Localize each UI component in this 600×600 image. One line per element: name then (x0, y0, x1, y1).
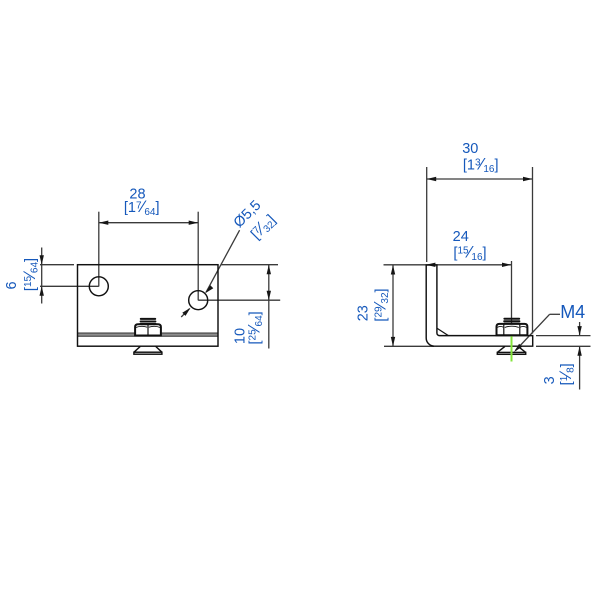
svg-text:[17⁄64]: [17⁄64] (124, 197, 160, 218)
svg-text:24: 24 (453, 229, 469, 245)
svg-text:6: 6 (4, 281, 20, 289)
svg-text:[15⁄64]: [15⁄64] (20, 258, 41, 291)
svg-text:[1⁄8]: [1⁄8] (556, 363, 577, 385)
svg-text:[25⁄64]: [25⁄64] (245, 311, 266, 344)
svg-text:23: 23 (355, 305, 371, 321)
svg-text:[15⁄16]: [15⁄16] (453, 242, 486, 263)
svg-text:[29⁄32]: [29⁄32] (370, 288, 391, 321)
svg-text:10: 10 (232, 328, 248, 344)
svg-text:3: 3 (542, 376, 558, 384)
svg-text:30: 30 (462, 141, 478, 157)
svg-text:[13⁄16]: [13⁄16] (463, 154, 499, 175)
svg-text:M4: M4 (560, 302, 585, 322)
